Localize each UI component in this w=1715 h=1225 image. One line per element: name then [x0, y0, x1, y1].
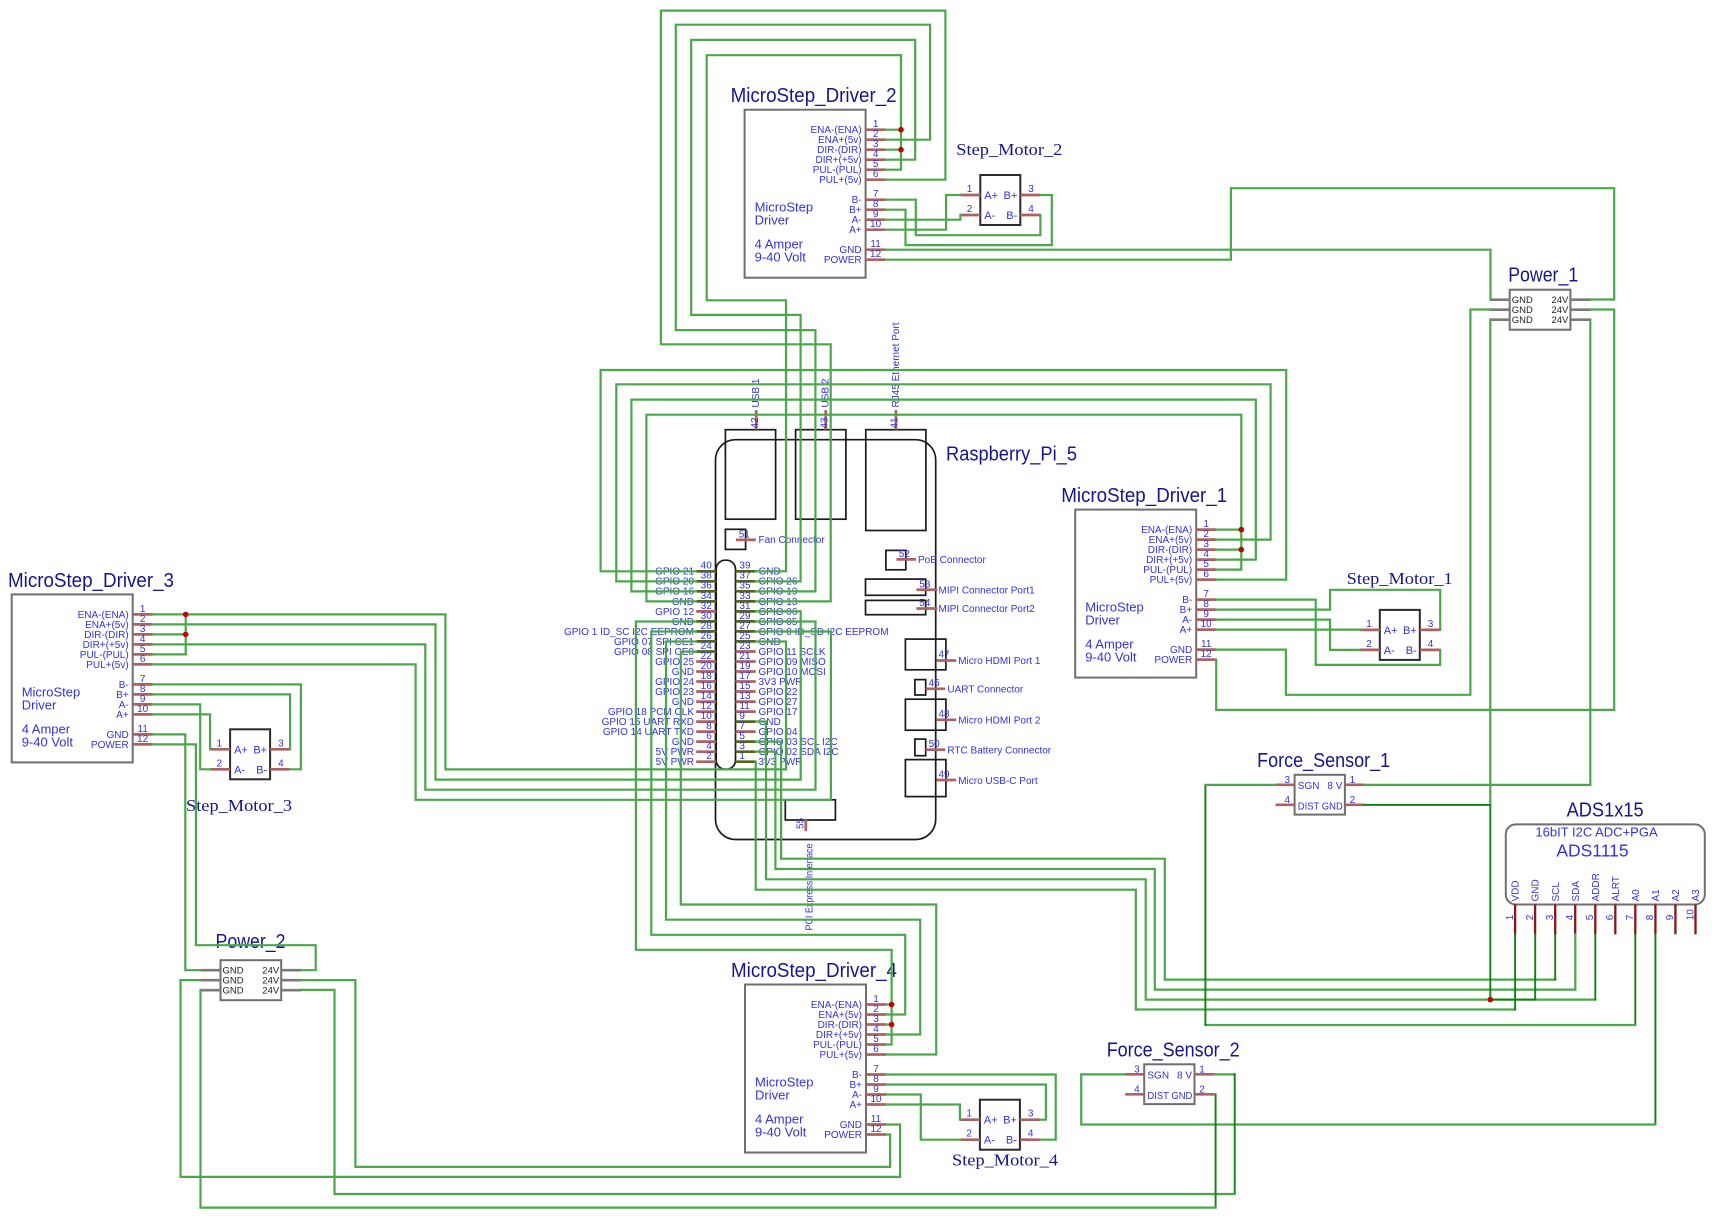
svg-text:SCL: SCL — [1551, 882, 1562, 902]
svg-text:16bIT I2C ADC+PGA: 16bIT I2C ADC+PGA — [1535, 825, 1658, 840]
GPIO header right pin 33 GPIO 13 — [736, 591, 798, 608]
wire MSD2 pin10 A+ to motor2 pin1 — [886, 195, 961, 230]
wire MSD4 pin11 GND to Power2 GND2 — [181, 980, 901, 1177]
svg-text:ADS1115: ADS1115 — [1556, 841, 1628, 861]
svg-text:6: 6 — [1605, 914, 1616, 920]
svg-text:41: 41 — [890, 417, 901, 429]
svg-text:3: 3 — [1428, 619, 1434, 630]
power supply Power_1 — [1490, 265, 1591, 330]
svg-text:Step_Motor_2: Step_Motor_2 — [956, 140, 1062, 159]
GPIO header right pin 35 GPIO 19 — [736, 581, 798, 598]
svg-text:24V: 24V — [1551, 315, 1569, 326]
step motor Step_Motor_3 — [186, 729, 292, 815]
svg-text:1: 1 — [1505, 914, 1516, 920]
GPIO header left pin 20 GND — [672, 661, 716, 678]
svg-text:A+: A+ — [984, 190, 998, 202]
wire MSD2 pin9 A- to motor2 pin2 — [886, 215, 961, 220]
wire MSD2 pin6 PUL+ loop to GPIO13 — [661, 11, 946, 602]
svg-text:GND: GND — [1531, 879, 1542, 901]
svg-text:Raspberry_Pi_5: Raspberry_Pi_5 — [946, 443, 1077, 465]
force sensor Force_Sensor_1 — [1257, 750, 1390, 815]
svg-text:PUL+(5v): PUL+(5v) — [819, 1050, 862, 1061]
svg-text:DIST GND: DIST GND — [1298, 801, 1343, 812]
wire MSD3 pin11 GND to Power2 GND1 — [153, 734, 201, 970]
GPIO header right pin 15 GPIO 22 — [736, 681, 798, 698]
GPIO header left pin 32 GPIO 12 — [655, 601, 716, 618]
micro HDMI port 1 connector 47 — [905, 639, 1040, 670]
GPIO header left pin 34 GND — [672, 591, 716, 608]
svg-text:1: 1 — [1366, 619, 1372, 630]
svg-text:12: 12 — [870, 249, 882, 260]
PoE connector 52 — [886, 549, 987, 570]
wire MSD3 pin12 POWER to Power2 24V1 — [153, 744, 316, 970]
svg-text:2: 2 — [1199, 1085, 1205, 1096]
ADS1115 pin 9 A2 — [1665, 889, 1682, 934]
MicroStep driver MicroStep_Driver_4 — [731, 960, 897, 1153]
USB 1 connector port 42 — [725, 378, 775, 519]
wire MSD1 pin8 B+ to motor1 pin3 — [1216, 590, 1440, 630]
svg-text:B+: B+ — [1403, 625, 1417, 637]
svg-text:B-: B- — [1006, 210, 1017, 222]
wire ADS A1 to Force Sensor 2 SGN — [1654, 934, 1656, 1124]
MIPI connector port2 54 — [866, 598, 1036, 615]
wire MSD3 pin9 A- to motor3 pin2 — [153, 704, 210, 769]
svg-text:1: 1 — [739, 751, 745, 762]
svg-text:2: 2 — [706, 751, 712, 762]
wire MSD2 common pins 1-3-5 loop to GND39 — [886, 129, 901, 131]
svg-text:9-40 Volt: 9-40 Volt — [1085, 650, 1137, 665]
GPIO header left pin 30 GND — [672, 611, 716, 628]
GPIO header right pin 23 GPIO 11 SCLK — [736, 641, 826, 658]
svg-text:43: 43 — [819, 417, 830, 429]
svg-text:54: 54 — [919, 598, 931, 609]
GPIO header left pin 40 GPIO 21 — [655, 561, 716, 578]
svg-text:A-: A- — [1384, 645, 1395, 657]
svg-text:8: 8 — [1645, 914, 1656, 920]
svg-text:50: 50 — [929, 739, 941, 750]
svg-text:12: 12 — [870, 1124, 882, 1135]
wire MSD2 pin12 POWER to Power1 24V1 — [886, 188, 1615, 299]
svg-text:SGN: SGN — [1298, 781, 1320, 792]
MicroStep driver MicroStep_Driver_1 — [1061, 485, 1227, 677]
svg-text:10: 10 — [137, 704, 149, 715]
junction MSD3 pin1 — [183, 612, 189, 618]
wire MSD1 pin4 DIR+ to GPIO16 — [631, 400, 1255, 592]
svg-text:Driver: Driver — [755, 213, 790, 228]
svg-text:MicroStep_Driver_1: MicroStep_Driver_1 — [1061, 485, 1227, 507]
micro USB-C port connector 49 — [905, 760, 1037, 797]
wire MSD4 pin7 B- to motor4 pin4 — [886, 1075, 1056, 1140]
GPIO header left pin 12 GPIO 18 PCM CLK — [608, 701, 716, 718]
svg-text:Step_Motor_3: Step_Motor_3 — [186, 796, 292, 815]
svg-text:2: 2 — [217, 758, 223, 769]
svg-text:A+: A+ — [1384, 625, 1398, 637]
svg-text:RTC Battery Connector: RTC Battery Connector — [947, 745, 1051, 756]
svg-text:10: 10 — [1685, 909, 1696, 921]
RJ45 Ethernet port 41 — [866, 322, 926, 530]
GPIO header right pin 9 GND — [736, 711, 781, 728]
wire GPIO02 SDA to ADS SDA — [756, 752, 1576, 990]
wire MSD4 pin8 B+ to motor4 pin3 — [886, 1085, 1046, 1120]
svg-text:MicroStep_Driver_3: MicroStep_Driver_3 — [8, 570, 174, 592]
svg-text:48: 48 — [939, 709, 951, 720]
junction MSD4 pin3 — [889, 1022, 895, 1028]
wire MSD4 pin12 POWER to Power2 24V2 — [301, 980, 890, 1167]
GPIO header right pin 31 GPIO 06 — [736, 601, 798, 618]
step motor Step_Motor_1 — [1347, 569, 1453, 660]
wire MSD3 pin7 B- to motor3 pin4 — [153, 684, 301, 769]
svg-text:A1: A1 — [1651, 889, 1662, 902]
svg-text:PoE Connector: PoE Connector — [918, 555, 986, 566]
svg-text:51: 51 — [739, 529, 751, 540]
svg-text:10: 10 — [870, 219, 882, 230]
svg-text:MicroStep_Driver_4: MicroStep_Driver_4 — [731, 960, 897, 982]
svg-text:3: 3 — [1028, 184, 1034, 195]
ADS1115 pin 10 A3 — [1685, 889, 1702, 934]
wire MSD3 pin8 B+ to motor3 pin3 — [153, 694, 290, 749]
MIPI connector port1 53 — [866, 579, 1036, 596]
PCI express interface connector 55 — [785, 800, 835, 931]
wire MSD3 pin6 PUL+ to GPIO0 ID_SD — [153, 632, 831, 800]
junction MSD2 pin1 — [898, 127, 904, 133]
power supply Power_2 — [201, 931, 302, 1000]
GPIO header right pin 21 GPIO 09 MISO — [736, 651, 826, 668]
wire MSD1 common pins 1-3-5 to GND34 — [1216, 528, 1241, 530]
svg-text:2: 2 — [1525, 914, 1536, 920]
svg-text:5: 5 — [1585, 914, 1596, 920]
svg-text:B-: B- — [1406, 645, 1417, 657]
svg-text:A-: A- — [984, 210, 995, 222]
svg-text:Step_Motor_4: Step_Motor_4 — [952, 1151, 1058, 1170]
wire MSD2 pin7 B- to motor2 pin4 — [886, 200, 1041, 236]
svg-text:46: 46 — [929, 678, 941, 689]
svg-text:Micro USB-C Port: Micro USB-C Port — [958, 776, 1038, 787]
junction MSD4 pin1 — [889, 1002, 895, 1008]
svg-text:2: 2 — [1366, 639, 1372, 650]
svg-text:A0: A0 — [1631, 889, 1642, 902]
GPIO header left pin 6 GND — [672, 731, 716, 748]
svg-text:52: 52 — [899, 549, 911, 560]
svg-text:55: 55 — [796, 817, 807, 829]
svg-text:MIPI Connector Port2: MIPI Connector Port2 — [939, 604, 1036, 615]
svg-text:A2: A2 — [1671, 889, 1682, 902]
svg-text:A+: A+ — [984, 1115, 998, 1127]
UART connector 46 — [915, 678, 1024, 695]
svg-text:POWER: POWER — [1154, 655, 1192, 666]
svg-text:Force_Sensor_2: Force_Sensor_2 — [1107, 1039, 1240, 1061]
ADC ADS1x15 ADS1115 — [1506, 799, 1705, 904]
svg-text:A+: A+ — [116, 710, 129, 721]
svg-text:3: 3 — [1028, 1109, 1034, 1120]
GPIO header right pin 13 GPIO 27 — [736, 691, 798, 708]
svg-text:Power_2: Power_2 — [216, 931, 286, 953]
svg-text:Micro HDMI Port 2: Micro HDMI Port 2 — [958, 716, 1041, 727]
junction MSD2 pin3 — [898, 147, 904, 153]
svg-text:2: 2 — [1350, 795, 1356, 806]
force sensor Force_Sensor_2 — [1107, 1039, 1240, 1104]
RTC battery connector 50 — [915, 739, 1052, 756]
GPIO header left pin 38 GPIO 20 — [655, 571, 716, 588]
svg-text:PUL+(5v): PUL+(5v) — [86, 660, 129, 671]
svg-text:12: 12 — [1201, 649, 1213, 660]
wire Force Sensor 2 DIST GND to Power2 GND3 — [1215, 1094, 1217, 1207]
GPIO header right pin 3 GPIO 02 SDA I2C — [736, 741, 839, 758]
GPIO header left pin 2 5V PWR — [656, 751, 717, 768]
GPIO header left pin 24 GPIO 08 SPI CE0 — [614, 641, 716, 658]
svg-text:1: 1 — [1199, 1065, 1205, 1076]
svg-text:ADDR: ADDR — [1591, 873, 1602, 901]
GPIO header left pin 22 GPIO 25 — [655, 651, 716, 668]
ADS GND pin wire — [1490, 934, 1535, 999]
ADS VDD pin wire — [1514, 934, 1516, 1009]
junction MSD1 pin3 — [1239, 547, 1245, 553]
svg-text:1: 1 — [966, 1109, 972, 1120]
svg-text:A3: A3 — [1691, 889, 1702, 902]
svg-text:DIST GND: DIST GND — [1147, 1091, 1192, 1102]
svg-text:9-40 Volt: 9-40 Volt — [22, 734, 74, 749]
wire GPIO08 CE0 to MSD4 pin6 PUL+ — [681, 652, 936, 1055]
GPIO header right pin 11 GPIO 17 — [736, 701, 798, 718]
ADS1115 pin 4 SDA — [1565, 881, 1582, 935]
wire GND30 to MSD4 common pins 1-3-5 — [636, 622, 892, 1045]
svg-text:47: 47 — [939, 650, 951, 661]
wire MSD1 pin7 B- to motor1 pin4 — [1216, 600, 1440, 665]
svg-text:3: 3 — [278, 738, 284, 749]
svg-text:RJ45 Ethernet Port: RJ45 Ethernet Port — [891, 322, 902, 407]
svg-text:PUL+(5v): PUL+(5v) — [819, 175, 862, 186]
svg-text:4: 4 — [1428, 639, 1434, 650]
svg-text:B-: B- — [1006, 1135, 1017, 1147]
svg-text:10: 10 — [1201, 619, 1213, 630]
junction ADS GND net — [1488, 997, 1494, 1003]
GPIO header right pin 7 GPIO 04 — [736, 721, 798, 738]
wire MSD1 pin6 PUL+ to GPIO21 — [601, 370, 1287, 580]
ADS1115 pin 8 A1 — [1645, 889, 1662, 934]
wire MSD1 pin2 ENA+ to GPIO20 — [616, 384, 1270, 581]
svg-text:1: 1 — [967, 184, 973, 195]
MicroStep driver MicroStep_Driver_3 — [8, 570, 174, 763]
svg-text:6: 6 — [873, 1044, 879, 1055]
ADS1115 pin 1 VDD — [1505, 880, 1522, 934]
GPIO header right pin 29 GPIO 05 — [736, 611, 798, 628]
MicroStep driver MicroStep_Driver_2 — [731, 85, 897, 278]
svg-text:4: 4 — [1565, 914, 1576, 920]
GPIO header left pin 4 5V PWR — [656, 741, 717, 758]
svg-text:6: 6 — [873, 169, 879, 180]
svg-text:6: 6 — [1203, 569, 1209, 580]
svg-text:UART Connector: UART Connector — [947, 685, 1023, 696]
step motor Step_Motor_2 — [956, 140, 1062, 225]
svg-text:SDA: SDA — [1571, 881, 1582, 902]
wire MSD3 pin4 DIR+ to GPIO05 — [153, 622, 816, 790]
GPIO header right pin 39 GND — [736, 561, 781, 578]
svg-text:2: 2 — [967, 204, 973, 215]
svg-text:A+: A+ — [849, 1100, 862, 1111]
svg-text:Power_1: Power_1 — [1508, 265, 1578, 287]
GPIO header left pin 16 GPIO 23 — [655, 681, 716, 698]
svg-text:6: 6 — [140, 654, 146, 665]
svg-text:Micro HDMI Port 1: Micro HDMI Port 1 — [958, 656, 1041, 667]
svg-text:MicroStep_Driver_2: MicroStep_Driver_2 — [731, 85, 897, 107]
ADS ADDR pin wire — [1594, 934, 1596, 999]
svg-text:12: 12 — [137, 734, 149, 745]
ADS SDA pin wire — [1574, 934, 1576, 989]
svg-text:GND: GND — [1512, 315, 1533, 326]
GPIO header right pin 37 GPIO 26 — [736, 571, 798, 588]
svg-text:8 V: 8 V — [1327, 781, 1342, 792]
Raspberry Pi 5 outline — [716, 440, 1078, 840]
svg-text:A+: A+ — [849, 225, 862, 236]
svg-text:4: 4 — [278, 758, 284, 769]
GPIO header left pin 36 GPIO 16 — [655, 581, 716, 598]
micro HDMI port 2 connector 48 — [905, 699, 1040, 730]
svg-text:PUL+(5v): PUL+(5v) — [1150, 575, 1193, 586]
step motor Step_Motor_4 — [952, 1100, 1058, 1170]
wire MSD2 pin4 DIR+ loop to GPIO26 — [691, 40, 915, 582]
wire MSD1 pin10 A+ to motor1 pin1 — [1216, 628, 1360, 630]
ADS1115 pin 2 GND — [1525, 879, 1542, 934]
svg-text:SGN: SGN — [1147, 1071, 1169, 1082]
svg-text:PCI Express Interface: PCI Express Interface — [805, 843, 816, 930]
svg-text:ALRT: ALRT — [1611, 876, 1622, 901]
svg-text:3: 3 — [1545, 914, 1556, 920]
svg-text:1: 1 — [217, 738, 223, 749]
svg-text:53: 53 — [919, 579, 931, 590]
wire MSD2 pin8 B+ to motor2 pin3 — [886, 195, 1052, 245]
svg-text:GND: GND — [223, 986, 244, 997]
svg-text:24V: 24V — [262, 986, 280, 997]
GPIO header right pin 5 GPIO 03 SCL I2C — [736, 731, 838, 748]
wire Force Sensor 1 DIST GND to Power1 GND3 junction — [1365, 804, 1490, 806]
svg-text:A+: A+ — [234, 744, 248, 756]
ADS SCL pin wire — [1554, 934, 1556, 979]
wire MSD1 pin11 GND to Power1 GND2 — [1216, 310, 1490, 695]
svg-text:Driver: Driver — [755, 1088, 790, 1103]
svg-text:VDD: VDD — [1511, 880, 1522, 901]
wire MSD3 common pins 1-3-5 to GND25 — [153, 614, 786, 769]
svg-text:B-: B- — [256, 764, 267, 776]
USB 2 connector port 43 — [796, 378, 846, 519]
GPIO header left pin 28 GPIO 1 ID_SC I2C EEPROM — [564, 621, 716, 638]
svg-text:4: 4 — [1134, 1085, 1140, 1096]
svg-text:Driver: Driver — [22, 697, 57, 712]
wire MSD4 pin9 A- to motor4 pin2 — [886, 1095, 960, 1140]
GPIO 40-pin header strip — [716, 560, 735, 769]
svg-text:POWER: POWER — [91, 740, 129, 751]
wire GPIO GND9 to ADS ADDR and GND — [756, 722, 1596, 1000]
GPIO header right pin 27 GPIO 0 ID_SD I2C EEPROM — [736, 621, 889, 638]
GPIO header right pin 19 GPIO 10 MOSI — [736, 661, 826, 678]
svg-text:1: 1 — [1350, 775, 1356, 786]
wire GPIO1 ID_SC to MSD4 pin2 ENA+ — [651, 632, 905, 1015]
ADS1115 pin 3 SCL — [1545, 882, 1562, 935]
svg-text:A-: A- — [234, 764, 245, 776]
svg-text:2: 2 — [966, 1129, 972, 1140]
svg-text:B+: B+ — [1004, 190, 1018, 202]
GPIO header right pin 25 GND — [736, 631, 781, 648]
svg-text:8 V: 8 V — [1177, 1071, 1192, 1082]
svg-text:9-40 Volt: 9-40 Volt — [755, 250, 807, 265]
svg-text:USB 1: USB 1 — [751, 378, 762, 407]
svg-text:3: 3 — [1285, 775, 1291, 786]
ADS1115 pin 5 ADDR — [1585, 873, 1602, 934]
svg-text:Step_Motor_1: Step_Motor_1 — [1347, 569, 1453, 588]
GPIO header right pin 1 3V3 PWR — [736, 751, 803, 768]
wire Force Sensor 1 8V to Power1 24V3 — [1365, 320, 1590, 785]
GPIO header left pin 8 GPIO 14 UART TXD — [603, 721, 716, 738]
wire MSD4 pin10 A+ to motor4 pin1 — [886, 1105, 960, 1120]
wire MSD2 pin2 ENA+ loop to GPIO19 — [676, 25, 930, 592]
svg-text:7: 7 — [1625, 914, 1636, 920]
svg-text:49: 49 — [939, 769, 951, 780]
ADS1115 pin 6 ALRT — [1605, 876, 1622, 934]
junction MSD3 pin3 — [183, 632, 189, 638]
wire MSD1 pin12 POWER to Power1 24V2 — [1216, 310, 1614, 710]
svg-text:5V PWR: 5V PWR — [656, 757, 694, 768]
svg-text:9-40 Volt: 9-40 Volt — [755, 1125, 807, 1140]
svg-text:POWER: POWER — [824, 1130, 862, 1141]
GPIO header left pin 14 GND — [672, 691, 716, 708]
svg-text:3: 3 — [1134, 1065, 1140, 1076]
svg-text:ADS1x15: ADS1x15 — [1567, 799, 1644, 821]
svg-text:POWER: POWER — [824, 255, 862, 266]
ADS1115 pin 7 A0 — [1625, 889, 1642, 934]
wire MSD3 pin10 A+ to motor3 pin1 — [153, 714, 210, 749]
fan connector 51 — [725, 529, 825, 549]
svg-text:A+: A+ — [1180, 625, 1193, 636]
junction MSD1 pin1 — [1239, 527, 1245, 533]
wire GPIO07 CE1 to MSD4 pin4 DIR+ — [666, 642, 920, 1035]
wire GPIO 3V3 to ADS VDD — [756, 762, 1515, 1010]
svg-text:4: 4 — [1285, 795, 1291, 806]
svg-text:10: 10 — [870, 1094, 882, 1105]
svg-text:MIPI Connector Port1: MIPI Connector Port1 — [939, 585, 1036, 596]
svg-text:9: 9 — [1665, 914, 1676, 920]
svg-text:Force_Sensor_1: Force_Sensor_1 — [1257, 750, 1390, 772]
wire GPIO03 SCL to ADS SCL — [756, 742, 1556, 980]
wire MSD2 pin11 GND to Power1 GND1 — [886, 250, 1491, 300]
svg-text:A-: A- — [984, 1135, 995, 1147]
wire Force Sensor 2 8V to Power2 24V3 — [1216, 1073, 1235, 1075]
GPIO header right pin 17 3V3 PWR — [736, 671, 803, 688]
svg-text:B+: B+ — [253, 744, 267, 756]
wire MSD1 pin9 A- to motor1 pin2 — [1216, 620, 1360, 650]
svg-text:Driver: Driver — [1085, 613, 1120, 628]
svg-text:4: 4 — [1028, 1129, 1034, 1140]
GPIO header left pin 10 GPIO 15 UART RXD — [602, 711, 717, 728]
svg-text:42: 42 — [750, 417, 761, 429]
wire MSD3 pin2 ENA+ to GPIO06 — [153, 611, 801, 779]
GPIO header left pin 18 GPIO 24 — [655, 671, 716, 688]
wire ADS A0 to Force Sensor 1 SGN — [1634, 934, 1636, 1025]
GPIO header left pin 26 GPIO 07 SPI CE1 — [614, 631, 716, 648]
svg-text:B+: B+ — [1003, 1115, 1017, 1127]
svg-text:4: 4 — [1028, 204, 1034, 215]
